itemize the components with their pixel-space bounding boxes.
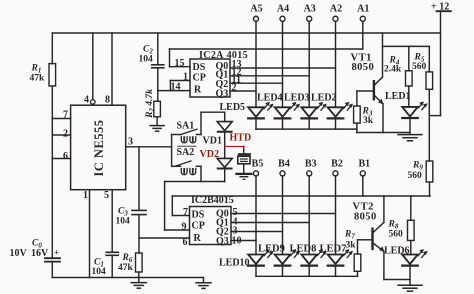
svg-text:560: 560 [389, 230, 404, 240]
svg-text:LED6: LED6 [384, 245, 410, 256]
svg-text:VD1: VD1 [203, 135, 222, 146]
svg-text:B4: B4 [278, 158, 290, 169]
svg-text:10: 10 [232, 236, 242, 247]
svg-text:10V: 10V [10, 248, 28, 259]
svg-text:B1: B1 [358, 158, 370, 169]
svg-text:CP: CP [192, 221, 205, 232]
svg-text:SA2: SA2 [177, 147, 195, 158]
svg-text:47k: 47k [30, 74, 46, 84]
svg-text:3k: 3k [346, 241, 357, 251]
svg-text:VD2: VD2 [200, 149, 219, 160]
svg-text:SA1: SA1 [177, 121, 195, 132]
svg-text:DS: DS [192, 210, 205, 221]
svg-text:3k: 3k [363, 116, 374, 126]
svg-text:7: 7 [63, 110, 68, 121]
svg-text:+: + [54, 248, 59, 258]
svg-text:B2: B2 [331, 158, 343, 169]
svg-text:104: 104 [139, 55, 154, 65]
svg-text:LED5: LED5 [220, 102, 246, 113]
svg-text:560: 560 [412, 62, 427, 72]
svg-text:LED10: LED10 [219, 258, 250, 269]
svg-text:A3: A3 [304, 4, 316, 15]
svg-text:Q3: Q3 [216, 89, 229, 100]
svg-text:A5: A5 [250, 4, 262, 15]
svg-text:2.4k: 2.4k [384, 65, 402, 75]
svg-text:LED7: LED7 [320, 244, 347, 255]
svg-text:104: 104 [92, 267, 107, 277]
svg-text:A1: A1 [357, 4, 369, 15]
svg-text:104: 104 [116, 217, 131, 227]
svg-text:9: 9 [182, 222, 187, 233]
svg-text:A2: A2 [330, 4, 342, 15]
svg-text:560: 560 [408, 171, 423, 181]
svg-text:7: 7 [183, 207, 188, 218]
svg-text:IC2B4015: IC2B4015 [191, 195, 234, 206]
svg-text:LED8: LED8 [290, 244, 317, 255]
svg-text:HTD: HTD [230, 133, 252, 144]
svg-text:CP: CP [193, 73, 206, 84]
svg-text:R: R [194, 233, 202, 244]
svg-text:14: 14 [171, 82, 181, 93]
svg-text:IC NE555: IC NE555 [92, 119, 106, 176]
svg-text:LED4: LED4 [257, 93, 283, 104]
svg-text:16V: 16V [31, 248, 49, 259]
svg-text:8050: 8050 [354, 212, 377, 223]
svg-text:2: 2 [232, 83, 237, 94]
svg-text:Q3: Q3 [216, 236, 229, 247]
svg-text:47k: 47k [118, 263, 134, 273]
svg-text:15: 15 [175, 58, 185, 69]
svg-text:B3: B3 [305, 158, 317, 169]
svg-text:1: 1 [83, 190, 88, 201]
svg-text:4: 4 [84, 95, 89, 106]
svg-text:2: 2 [63, 129, 68, 140]
svg-text:8: 8 [105, 95, 110, 106]
svg-text:3: 3 [128, 137, 133, 148]
svg-text:5: 5 [104, 190, 109, 201]
svg-text:6: 6 [183, 237, 188, 248]
svg-text:LED2: LED2 [311, 93, 337, 104]
svg-text:8050: 8050 [352, 62, 375, 73]
svg-text:DS: DS [193, 62, 206, 73]
svg-text:LED9: LED9 [258, 244, 285, 255]
svg-text:LED1: LED1 [385, 91, 411, 102]
svg-text:B5: B5 [252, 158, 264, 169]
svg-text:R2 4.7k: R2 4.7k [145, 89, 156, 119]
svg-text:A4: A4 [277, 4, 289, 15]
svg-text:1: 1 [183, 72, 188, 83]
svg-text:R: R [194, 85, 202, 96]
svg-text:6: 6 [63, 151, 68, 162]
svg-text:LED3: LED3 [284, 93, 310, 104]
svg-text:+ 12: + 12 [431, 2, 449, 13]
